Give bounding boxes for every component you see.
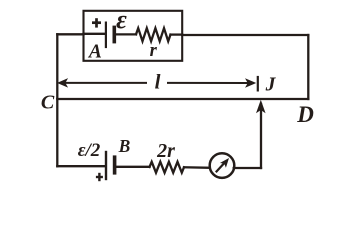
svg-text:ε: ε <box>116 5 127 34</box>
wire jockey riser vertical <box>260 104 262 168</box>
svg-text:D: D <box>296 102 314 127</box>
component box around cell A and resistor r <box>84 11 183 61</box>
arrowhead of jockey riser pointing up to J <box>257 101 265 112</box>
svg-text:r: r <box>150 41 158 61</box>
length arrow line left segment <box>62 82 146 84</box>
arrowhead right of length arrow <box>246 79 255 86</box>
svg-text:2r: 2r <box>156 140 175 162</box>
resistor r zigzag <box>136 28 171 41</box>
wire left rail vertical C column <box>56 34 58 166</box>
svg-text:ε/2: ε/2 <box>78 140 101 161</box>
galvanometer needle arrowhead <box>220 158 229 168</box>
svg-text:C: C <box>41 92 55 114</box>
wire bottom rail left segment to battery B <box>57 165 105 167</box>
wire inside box to battery A positive plate <box>84 33 106 35</box>
battery B long plate (+) <box>105 152 107 179</box>
battery B short plate (-) <box>113 157 117 173</box>
galvanometer needle <box>216 162 226 173</box>
svg-text:B: B <box>118 136 131 156</box>
battery A long plate (+) <box>105 23 107 47</box>
arrowhead left of length arrow <box>58 79 67 86</box>
wire resistor 2r to galvanometer <box>184 166 210 169</box>
galvanometer G body <box>210 153 235 178</box>
wire galvanometer to jockey riser <box>234 167 261 169</box>
wire resistor r to box right edge <box>171 33 183 35</box>
wire C to D horizontal <box>57 98 308 100</box>
wire top-right from box to right rail <box>182 34 308 36</box>
battery A short plate (-) <box>113 27 117 41</box>
wire battery B to resistor 2r <box>115 166 150 168</box>
label + of battery A <box>92 18 101 27</box>
length arrow line right segment <box>168 82 249 84</box>
resistor 2r zigzag <box>150 162 185 173</box>
svg-text:J: J <box>265 75 277 96</box>
terminal tick at J <box>257 77 259 90</box>
label + of battery B <box>96 173 103 181</box>
wire battery A to resistor r <box>114 33 136 35</box>
svg-text:A: A <box>87 42 102 63</box>
wire right rail vertical down to D <box>307 35 309 99</box>
svg-text:l: l <box>155 70 161 94</box>
wire top-left from box to left rail <box>57 33 83 35</box>
